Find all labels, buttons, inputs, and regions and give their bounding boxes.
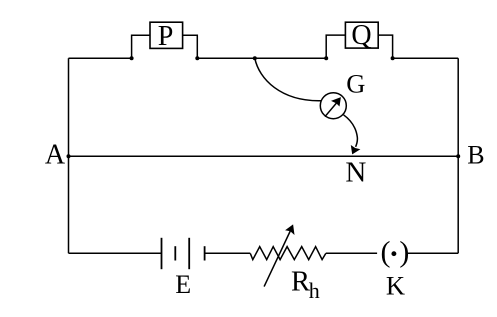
wire top rail segment 3 [393,57,459,59]
svg-text:N: N [345,157,366,189]
wire riser and stub left of Q [326,35,345,58]
node dot: top-left junction of P [130,56,134,60]
galvanometer needle arrowhead [331,97,341,106]
galvanometer U1 circle [320,93,346,119]
wire right vertical (B branch) [457,58,459,253]
key K contact dot [391,251,396,256]
svg-text:K: K [386,271,405,301]
wire curve jockey to galvanometer [255,58,321,101]
wire bottom rail battery to rheostat [205,252,251,254]
svg-text:(: ( [381,235,391,268]
node B dot [456,154,460,158]
rheostat Rh zigzag [250,247,325,260]
rheostat arrow line [264,231,290,287]
galvanometer needle [325,103,337,117]
svg-text:B: B [467,140,484,169]
node dot: jockey tap J [253,56,257,60]
wire left vertical (A branch) [68,58,70,253]
svg-text:G: G [346,68,365,98]
wire bottom rail key to right corner [408,252,459,254]
battery E plates [162,238,205,269]
wire riser and stub left of P [132,35,150,58]
svg-text:): ) [399,235,409,268]
wire stub and riser right of Q [378,35,392,58]
svg-text:h: h [309,278,320,303]
arrowhead at N [351,145,361,154]
node dot: top-left junction of Q [324,56,328,60]
svg-text:E: E [175,270,191,299]
svg-text:A: A [45,140,66,171]
wire top rail segment 2 (between P and Q) [197,57,326,59]
wire curve galvanometer to N [344,115,358,147]
node dot: top-right junction of Q [391,56,395,60]
resistor P box [150,21,183,52]
rheostat arrowhead [285,224,294,235]
node dot: top-right junction of P [195,56,199,60]
node A dot [67,154,71,158]
svg-text:P: P [158,21,174,52]
resistor Q box [345,20,378,51]
wire bottom rail segment left of battery [69,252,162,254]
wire top rail segment 1 [69,57,132,59]
wire middle A-B [69,155,459,157]
svg-text:R: R [291,267,310,298]
svg-text:Q: Q [351,20,371,51]
wire bottom rail rheostat to key [326,252,377,254]
wire stub and riser right of P [183,35,198,58]
